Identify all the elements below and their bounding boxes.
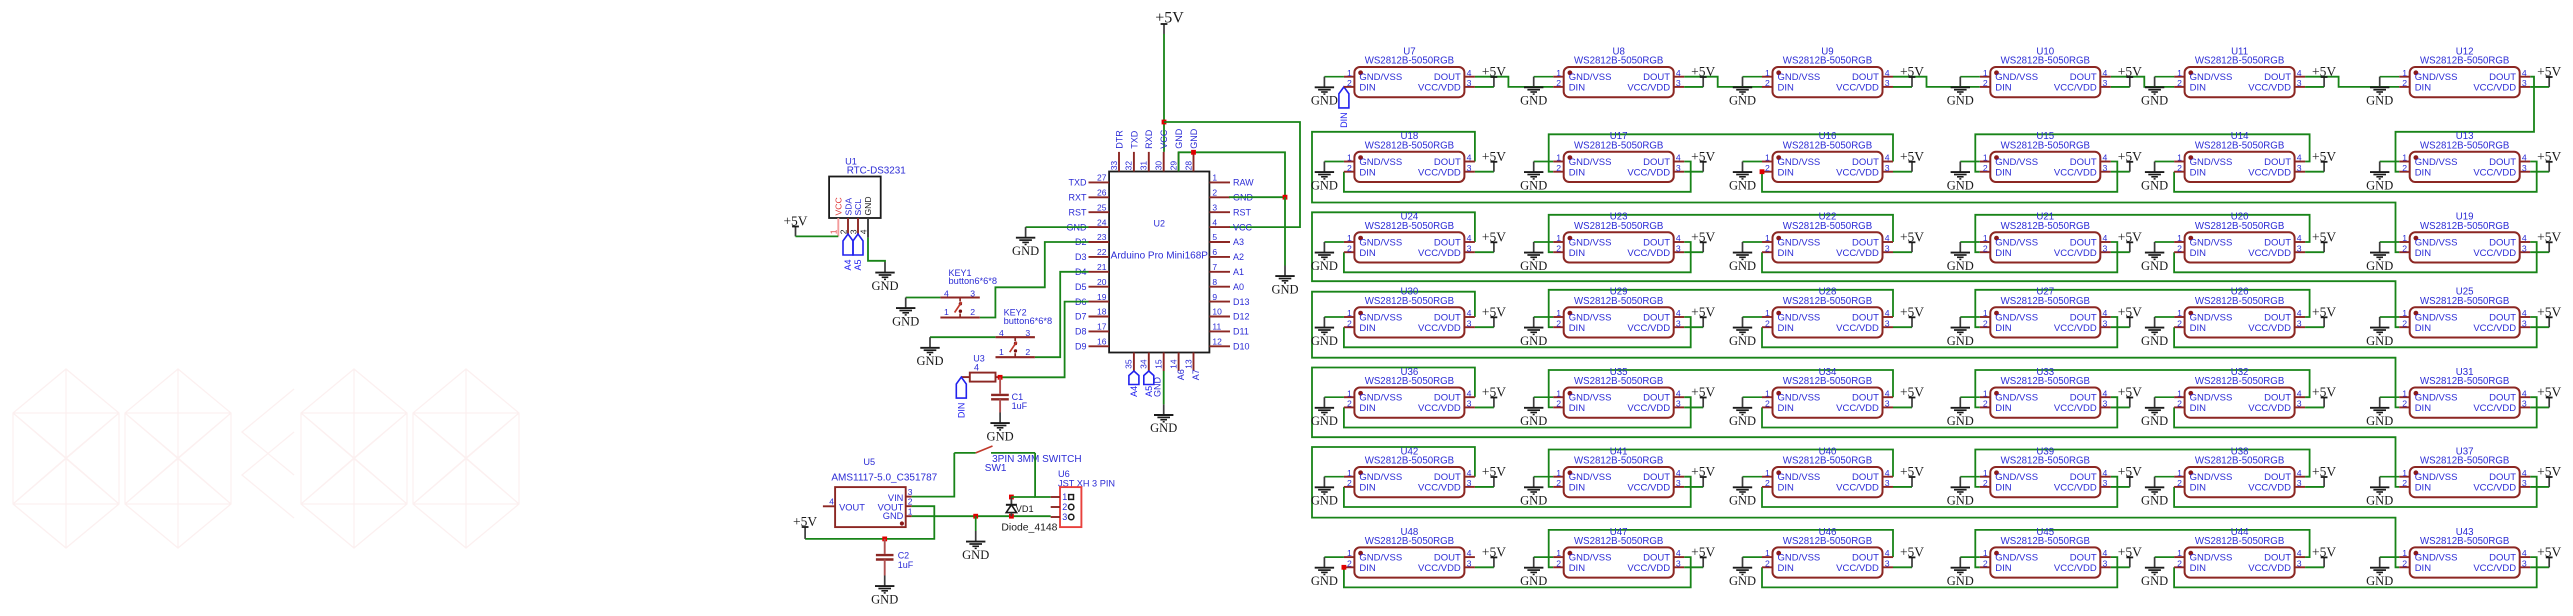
svg-text:3: 3 [2103,399,2108,409]
svg-text:6: 6 [1212,247,1217,257]
svg-text:3: 3 [1676,318,1681,328]
svg-text:1: 1 [1556,388,1561,398]
WS2812B LED U34 [1762,367,1893,418]
svg-text:2: 2 [908,497,913,507]
svg-text:WS2812B-5050RGB: WS2812B-5050RGB [1783,140,1872,151]
svg-text:3: 3 [1676,558,1681,568]
+5V power flag (top, feeds U2 VCC) [1155,10,1184,34]
U36 +5V power flag [1475,385,1506,408]
svg-text:GND: GND [1311,494,1338,508]
svg-text:DOUT: DOUT [2264,72,2291,83]
svg-text:3: 3 [1885,558,1890,568]
ground (C2) [871,576,898,607]
svg-text:DIN: DIN [2415,248,2432,259]
U2 right pin 1 (RAW) [1209,173,1254,188]
svg-text:GND/VSS: GND/VSS [1778,472,1821,483]
svg-text:VCC/VDD: VCC/VDD [2054,248,2097,259]
WS2812B LED U19 [2399,212,2530,263]
U27 ground [1947,317,1980,348]
wire U2 D4 to KEY2 [1035,272,1089,357]
U26 +5V power flag [2305,304,2336,327]
KEY2 pin4 wire to ground [930,336,995,338]
wire U46 DOUT to U47 DIN (top route) [1549,530,1893,567]
svg-text:DIN: DIN [1569,323,1586,334]
svg-text:GND: GND [871,279,898,293]
svg-text:34: 34 [1139,359,1149,369]
svg-text:DOUT: DOUT [1643,157,1670,168]
U42 +5V power flag [1475,464,1506,487]
svg-text:3: 3 [2297,243,2302,253]
WS2812B LED U47 [1553,527,1684,578]
svg-text:3: 3 [1885,78,1890,88]
U2 top pin 32 (TXD) [1124,130,1140,171]
svg-text:1: 1 [1062,492,1067,502]
wire U21 DOUT to U22 DIN (bottom route) [1762,242,2117,272]
svg-text:1: 1 [2402,233,2407,243]
svg-text:3: 3 [1467,558,1472,568]
U30 +5V power flag [1475,304,1506,327]
svg-text:button6*6*8: button6*6*8 [949,276,998,286]
U10 +5V power flag [2111,64,2142,87]
U11 ground [2141,77,2174,108]
svg-text:+5V: +5V [2537,464,2561,479]
svg-text:2: 2 [2177,163,2182,173]
svg-text:GND: GND [1520,334,1547,348]
svg-text:+5V: +5V [1900,149,1924,164]
svg-text:1: 1 [1556,153,1561,163]
WS2812B LED U39 [1980,446,2111,497]
svg-text:A5: A5 [853,260,863,271]
svg-text:4: 4 [1676,68,1681,78]
svg-text:WS2812B-5050RGB: WS2812B-5050RGB [1365,56,1454,67]
svg-text:GND/VSS: GND/VSS [2190,472,2233,483]
svg-text:GND/VSS: GND/VSS [1359,237,1402,248]
svg-text:GND: GND [2366,574,2393,588]
svg-text:RAW: RAW [1233,178,1254,188]
svg-text:GND: GND [1947,574,1974,588]
svg-text:4: 4 [1212,217,1217,227]
svg-text:DIN: DIN [2415,167,2432,178]
diode VD1 Diode_4148 [1001,495,1057,534]
svg-text:DOUT: DOUT [2070,157,2097,168]
svg-text:1: 1 [1765,308,1770,318]
U22 +5V power flag [1893,229,1924,252]
svg-text:SDA: SDA [843,198,853,216]
svg-text:WS2812B-5050RGB: WS2812B-5050RGB [1365,376,1454,387]
U2 right pin 9 (D13) [1209,292,1249,307]
ground (C1) [987,413,1014,444]
svg-text:DIN: DIN [1778,248,1795,259]
svg-text:VCC/VDD: VCC/VDD [2473,248,2516,259]
svg-text:2: 2 [1983,399,1988,409]
svg-text:2: 2 [1556,318,1561,328]
svg-text:+5V: +5V [793,514,817,529]
svg-text:+5V: +5V [1482,149,1506,164]
svg-text:1: 1 [1556,308,1561,318]
svg-text:7: 7 [1212,262,1217,272]
svg-text:DOUT: DOUT [2264,393,2291,404]
junction U48 DIN [1342,565,1347,570]
wire U18 DOUT return line to U19 DIN [1312,132,2399,252]
svg-text:WS2812B-5050RGB: WS2812B-5050RGB [1574,376,1663,387]
svg-text:GND/VSS: GND/VSS [1359,72,1402,83]
svg-text:2: 2 [1556,243,1561,253]
svg-text:18: 18 [1097,307,1107,317]
U2 left pin 25 (RST) [1069,202,1110,217]
svg-text:1: 1 [829,229,839,234]
svg-text:VCC/VDD: VCC/VDD [2473,483,2516,494]
wire U23 DOUT to U24 DIN (bottom route) [1344,242,1691,272]
svg-text:2: 2 [1765,78,1770,88]
svg-text:DIN: DIN [2415,83,2432,94]
U24 +5V power flag [1475,229,1506,252]
svg-text:GND/VSS: GND/VSS [2190,553,2233,564]
svg-text:D11: D11 [1233,327,1249,337]
svg-text:GND/VSS: GND/VSS [1569,72,1612,83]
WS2812B LED U7 [1344,46,1475,97]
net label A5 (U1 SCL) [853,234,863,271]
svg-text:DOUT: DOUT [2264,472,2291,483]
U35 +5V power flag [1684,385,1715,408]
svg-text:28: 28 [1183,161,1193,171]
svg-text:DOUT: DOUT [1852,312,1879,323]
svg-text:RXT: RXT [1069,193,1088,203]
WS2812B LED U14 [2174,131,2305,182]
svg-text:DIN: DIN [1778,483,1795,494]
WS2812B LED U38 [2174,446,2305,497]
svg-text:4: 4 [1467,68,1472,78]
svg-text:GND/VSS: GND/VSS [1359,553,1402,564]
svg-text:+5V: +5V [1482,304,1506,319]
svg-text:3: 3 [2103,478,2108,488]
svg-text:D13: D13 [1233,297,1250,307]
U34 +5V power flag [1893,385,1924,408]
svg-text:2: 2 [2177,78,2182,88]
svg-text:3: 3 [2522,399,2527,409]
U2 bottom pin 34 [1139,353,1149,372]
U2 left pin 16 (D9) [1075,337,1109,352]
WS2812B LED U16 [1762,131,1893,182]
svg-text:DOUT: DOUT [1434,472,1461,483]
svg-text:+5V: +5V [1691,64,1715,79]
svg-text:GND: GND [1947,414,1974,428]
svg-text:1: 1 [2402,388,2407,398]
wire U33 DOUT to U34 DIN (bottom route) [1762,397,2117,427]
svg-text:+5V: +5V [1900,64,1924,79]
svg-text:A7: A7 [1191,369,1201,380]
svg-text:DOUT: DOUT [2070,393,2097,404]
svg-text:VCC/VDD: VCC/VDD [1418,403,1461,414]
svg-text:GND/VSS: GND/VSS [1359,312,1402,323]
svg-text:GND/VSS: GND/VSS [1995,472,2038,483]
svg-text:3: 3 [1062,512,1067,522]
svg-text:3: 3 [1676,163,1681,173]
svg-text:GND: GND [2366,494,2393,508]
svg-text:WS2812B-5050RGB: WS2812B-5050RGB [2001,456,2090,467]
svg-text:DOUT: DOUT [1643,312,1670,323]
U47 ground [1520,557,1553,588]
svg-text:3: 3 [1885,478,1890,488]
WS2812B LED U37 [2399,446,2530,497]
svg-text:1: 1 [2402,153,2407,163]
svg-text:GND: GND [1520,494,1547,508]
svg-text:VCC/VDD: VCC/VDD [1418,483,1461,494]
svg-text:4: 4 [2103,68,2108,78]
U2 right pin 10 (D12) [1209,307,1249,322]
U8 ground [1520,77,1553,108]
svg-text:DOUT: DOUT [2489,312,2516,323]
wire U34 DOUT to U35 DIN (top route) [1549,370,1893,407]
svg-text:VCC/VDD: VCC/VDD [1418,83,1461,94]
svg-text:A1: A1 [1233,267,1244,277]
svg-text:4: 4 [2103,153,2108,163]
U28 +5V power flag [1893,304,1924,327]
svg-text:DIN: DIN [1995,248,2012,259]
wire +5V to U2 pin30 VCC and pin4 VCC [1162,34,1300,227]
svg-text:GND: GND [1150,421,1177,435]
U13 ground [2366,162,2399,193]
svg-text:DOUT: DOUT [2070,72,2097,83]
voltage regulator U5 AMS1117-5.0 [823,457,938,527]
svg-text:12: 12 [1212,337,1222,347]
+5V power flag (U5 output) [793,514,817,539]
svg-text:1: 1 [2177,388,2182,398]
U2 top pin 28 (GND) [1183,128,1199,171]
svg-text:GND/VSS: GND/VSS [1995,72,2038,83]
svg-text:5: 5 [1212,232,1217,242]
svg-text:DOUT: DOUT [2489,237,2516,248]
svg-text:VCC/VDD: VCC/VDD [1627,483,1670,494]
svg-text:2: 2 [1347,399,1352,409]
WS2812B LED U41 [1553,446,1684,497]
svg-text:3: 3 [2103,318,2108,328]
svg-text:WS2812B-5050RGB: WS2812B-5050RGB [1574,536,1663,547]
svg-text:GND: GND [1729,574,1756,588]
resistor U3 value 4 [961,354,1002,382]
svg-text:1: 1 [1983,153,1988,163]
wire U5 VIN to SW1 [912,453,955,497]
svg-text:Diode_4148: Diode_4148 [1001,523,1057,534]
svg-text:+5V: +5V [2312,304,2336,319]
svg-text:GND: GND [1012,244,1039,258]
svg-text:2: 2 [2177,478,2182,488]
svg-text:1: 1 [1765,153,1770,163]
svg-text:1: 1 [1983,233,1988,243]
U35 ground [1520,397,1553,428]
svg-text:VCC/VDD: VCC/VDD [1627,563,1670,574]
U23 +5V power flag [1684,229,1715,252]
svg-text:DOUT: DOUT [1852,393,1879,404]
svg-text:4: 4 [974,363,979,373]
svg-text:+5V: +5V [2537,545,2561,560]
svg-text:WS2812B-5050RGB: WS2812B-5050RGB [1365,140,1454,151]
svg-text:A4: A4 [843,260,853,271]
U2 left pin 27 (TXD) [1069,173,1110,188]
wire U15 DOUT to U16 DIN (bottom route) [1762,162,2117,192]
svg-text:2: 2 [1347,478,1352,488]
U2 pins 28,29 GND wires to right ground [1179,150,1285,197]
svg-text:4: 4 [2522,548,2527,558]
svg-text:VCC/VDD: VCC/VDD [1627,323,1670,334]
svg-text:3: 3 [2522,478,2527,488]
svg-text:1: 1 [1983,388,1988,398]
svg-text:1: 1 [1983,68,1988,78]
U2 bottom pin 15 [1154,353,1164,372]
capacitor C1 1uF [991,377,1028,412]
svg-text:2: 2 [2402,399,2407,409]
U2 left pin 24 (GND) [1067,217,1110,232]
svg-text:DOUT: DOUT [1643,553,1670,564]
net label DIN (U7 input) [1339,87,1349,128]
U15 ground [1947,162,1980,193]
wire U41 DOUT to U42 DIN (bottom route) [1344,477,1691,507]
svg-text:GND/VSS: GND/VSS [1778,157,1821,168]
node junction U3/C1/D6 [998,375,1003,380]
svg-text:+5V: +5V [1482,545,1506,560]
U2 right pin 5 (A3) [1209,232,1244,247]
WS2812B LED U25 [2399,287,2530,338]
svg-text:GND/VSS: GND/VSS [2415,72,2458,83]
svg-text:3: 3 [2103,163,2108,173]
svg-text:DIN: DIN [2190,483,2207,494]
svg-text:DIN: DIN [1778,83,1795,94]
wire +5V to U1 VCC pin1 [796,235,839,237]
svg-text:2: 2 [1556,558,1561,568]
svg-text:AMS1117-5.0_C351787: AMS1117-5.0_C351787 [831,472,937,483]
svg-text:VCC/VDD: VCC/VDD [1627,248,1670,259]
svg-text:GND/VSS: GND/VSS [1359,393,1402,404]
svg-text:WS2812B-5050RGB: WS2812B-5050RGB [2195,456,2284,467]
svg-text:DIN: DIN [1995,483,2012,494]
svg-text:4: 4 [1676,153,1681,163]
svg-text:1: 1 [1765,548,1770,558]
svg-text:4: 4 [2103,308,2108,318]
U18 ground [1311,162,1344,193]
ground (KEY2) [916,337,943,368]
svg-text:DOUT: DOUT [1643,237,1670,248]
svg-text:DTR: DTR [1114,130,1124,149]
U37 ground [2366,477,2399,508]
svg-text:+5V: +5V [2312,64,2336,79]
U23 ground [1520,242,1553,273]
svg-text:DIN: DIN [2190,167,2207,178]
WS2812B LED U45 [1980,527,2111,578]
svg-text:DIN: DIN [1359,323,1376,334]
svg-text:4: 4 [1885,548,1890,558]
svg-text:GND/VSS: GND/VSS [2415,553,2458,564]
svg-text:GND/VSS: GND/VSS [2415,157,2458,168]
svg-text:GND: GND [1947,334,1974,348]
node junction C2 [882,537,887,542]
U45 ground [1947,557,1980,588]
U2 right pin 4 (VCC) [1209,217,1252,232]
svg-text:GND: GND [1153,377,1163,398]
svg-text:1: 1 [999,347,1004,357]
svg-text:4: 4 [2297,388,2302,398]
svg-text:GND: GND [2141,414,2168,428]
wire U13 DOUT to U14 DIN (bottom route) [2174,162,2537,192]
svg-text:+5V: +5V [1691,304,1715,319]
svg-text:GND: GND [1311,178,1338,192]
svg-text:2: 2 [1556,78,1561,88]
pushbutton KEY1 [940,268,997,318]
svg-text:1: 1 [1765,468,1770,478]
svg-text:GND: GND [883,511,904,521]
U9 ground [1729,77,1762,108]
wire U22 DOUT to U23 DIN (top route) [1549,215,1893,252]
svg-text:26: 26 [1097,188,1107,198]
wire U43 DOUT to U44 DIN (bottom route) [2174,557,2537,587]
svg-text:VCC/VDD: VCC/VDD [2473,83,2516,94]
GND rail U5 pin1 to U6 pin3 [912,514,1051,519]
svg-text:2: 2 [970,307,975,317]
svg-text:+5V: +5V [2118,545,2142,560]
U21 ground [1947,242,1980,273]
svg-text:24: 24 [1097,217,1107,227]
svg-text:GND: GND [962,548,989,562]
svg-text:GND: GND [1311,334,1338,348]
svg-text:4: 4 [1676,548,1681,558]
svg-text:GND/VSS: GND/VSS [1778,72,1821,83]
svg-text:4: 4 [2522,233,2527,243]
svg-text:GND/VSS: GND/VSS [2415,393,2458,404]
svg-text:DIN: DIN [2190,248,2207,259]
svg-text:DIN: DIN [2415,403,2432,414]
ground (rail) [962,516,989,562]
svg-text:GND: GND [1729,259,1756,273]
wire U44 DOUT to U45 DIN (top route) [1975,530,2309,567]
svg-text:22: 22 [1097,247,1107,257]
svg-text:VCC/VDD: VCC/VDD [2054,323,2097,334]
svg-text:3: 3 [1467,478,1472,488]
svg-text:3: 3 [2297,399,2302,409]
svg-text:+5V: +5V [2312,385,2336,400]
svg-text:WS2812B-5050RGB: WS2812B-5050RGB [1574,140,1663,151]
svg-text:VCC/VDD: VCC/VDD [1836,83,1879,94]
svg-text:1: 1 [2402,308,2407,318]
svg-text:VCC/VDD: VCC/VDD [2248,167,2291,178]
svg-text:VOUT: VOUT [839,503,865,513]
svg-text:WS2812B-5050RGB: WS2812B-5050RGB [1365,456,1454,467]
U15 +5V power flag [2111,149,2142,172]
svg-text:+5V: +5V [1900,464,1924,479]
svg-text:DIN: DIN [1995,167,2012,178]
svg-text:GND/VSS: GND/VSS [1778,312,1821,323]
svg-text:35: 35 [1124,359,1134,369]
svg-text:4: 4 [2522,153,2527,163]
svg-text:4: 4 [2522,308,2527,318]
U2 left pin 20 (D5) [1075,277,1109,292]
U20 ground [2141,242,2174,273]
svg-text:GND/VSS: GND/VSS [2415,312,2458,323]
WS2812B LED U9 [1762,46,1893,97]
svg-text:DOUT: DOUT [1434,237,1461,248]
svg-text:DIN: DIN [2415,323,2432,334]
svg-text:VCC/VDD: VCC/VDD [1418,323,1461,334]
svg-text:4: 4 [1885,68,1890,78]
svg-text:4: 4 [858,229,868,234]
svg-text:GND: GND [916,354,943,368]
svg-text:DIN: DIN [1569,248,1586,259]
svg-text:+5V: +5V [1691,149,1715,164]
svg-text:4: 4 [2297,548,2302,558]
svg-text:+5V: +5V [2537,304,2561,319]
svg-text:WS2812B-5050RGB: WS2812B-5050RGB [1365,536,1454,547]
svg-text:VCC/VDD: VCC/VDD [2473,323,2516,334]
svg-text:DIN: DIN [1778,403,1795,414]
svg-text:+5V: +5V [2312,229,2336,244]
svg-text:1: 1 [2177,548,2182,558]
